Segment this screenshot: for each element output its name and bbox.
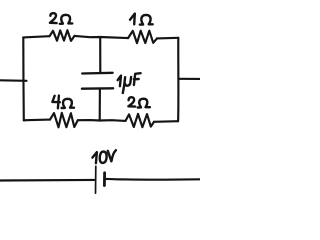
battery left wire (0, 179, 94, 182)
label R2 ohm symbol (140, 15, 153, 25)
wire top segment left (23, 36, 49, 37)
label battery digit 1 (92, 152, 97, 163)
label battery letter V (108, 150, 116, 161)
label R4 ohm symbol (138, 99, 150, 108)
battery long plate (95, 166, 97, 193)
wire right external lead (178, 78, 200, 80)
resistor R1 2ohm zigzag (50, 30, 75, 41)
wire bottom segment right (154, 120, 178, 123)
label R1 digit 2 (50, 13, 57, 23)
wire left vertical (22, 38, 25, 121)
resistor R4 2ohm zigzag (126, 114, 155, 127)
wire top segment middle (75, 36, 129, 38)
battery right wire (106, 178, 200, 181)
wire left external lead (0, 79, 27, 82)
label R4 digit 2 (128, 97, 135, 106)
wire bottom segment middle (78, 119, 126, 122)
wire capacitor branch bottom (99, 89, 101, 121)
battery short plate (103, 173, 106, 186)
label R2 digit 1 (130, 14, 135, 25)
capacitor C1 bottom plate (82, 87, 113, 90)
label C1 letter F (134, 73, 141, 85)
label C1 digit 1 (118, 76, 121, 87)
capacitor C1 top plate (82, 72, 112, 75)
label battery digit 0 (100, 152, 107, 163)
label R3 ohm symbol (62, 99, 74, 108)
resistor R3 4ohm zigzag (50, 113, 78, 127)
resistor R2 1ohm zigzag (128, 31, 157, 43)
label R1 ohm symbol (60, 15, 73, 24)
wire bottom segment left (24, 119, 50, 122)
label C1 mu symbol (123, 77, 131, 93)
wire capacitor branch top (99, 37, 101, 72)
label R3 digit 4 (52, 96, 59, 109)
wire top segment right (157, 37, 178, 40)
wire right vertical (177, 38, 179, 121)
